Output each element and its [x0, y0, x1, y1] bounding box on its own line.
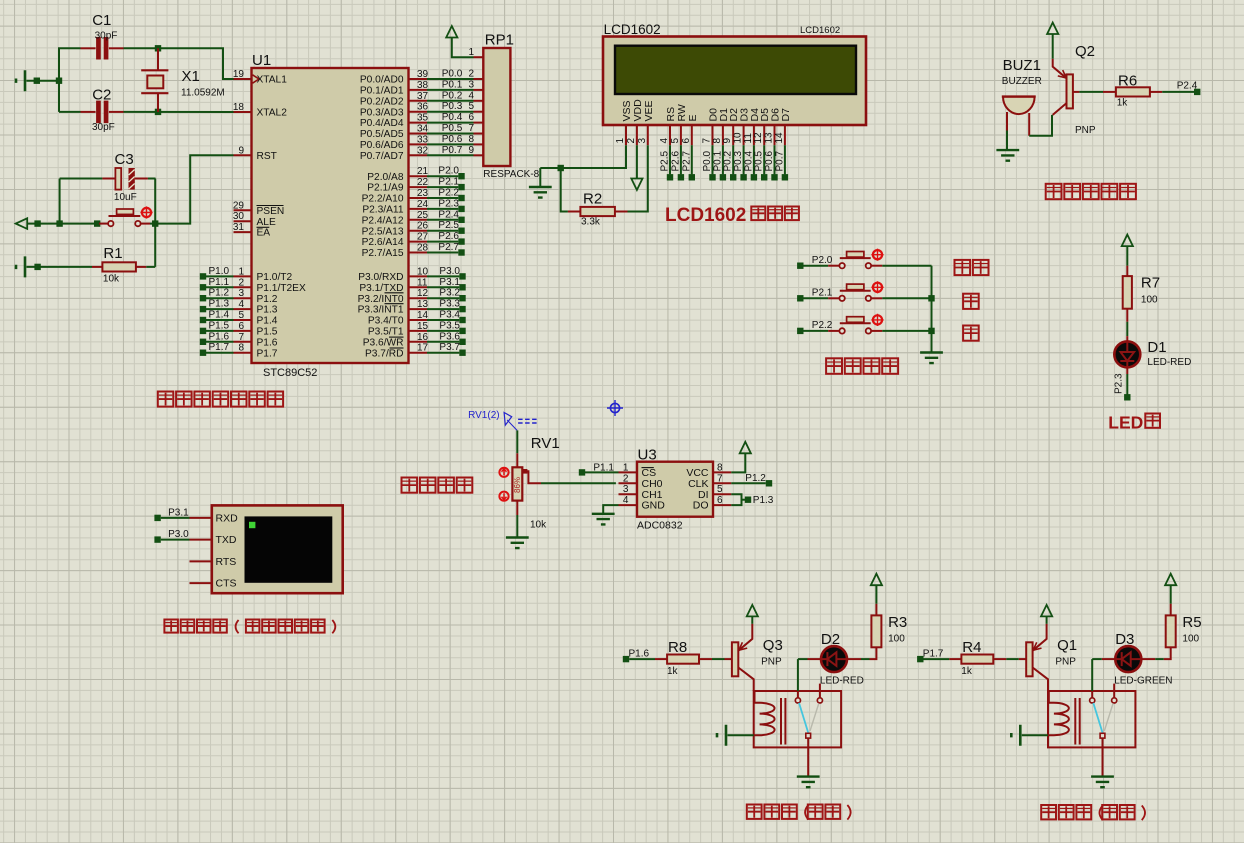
svg-text:1k: 1k — [1117, 98, 1129, 109]
svg-text:VEE: VEE — [643, 100, 655, 121]
svg-text:P0.4: P0.4 — [442, 112, 463, 123]
svg-text:ALE: ALE — [257, 217, 276, 228]
svg-text:26: 26 — [417, 221, 429, 232]
svg-text:P2.1/A9: P2.1/A9 — [367, 183, 404, 194]
svg-text:P2.6/A14: P2.6/A14 — [362, 237, 404, 248]
svg-text:P2.6: P2.6 — [670, 150, 681, 171]
svg-text:P2.7: P2.7 — [681, 150, 692, 171]
svg-text:P1.2: P1.2 — [209, 288, 230, 299]
svg-text:1: 1 — [623, 462, 629, 473]
svg-text:P1.3: P1.3 — [257, 305, 278, 316]
svg-text:P3.1: P3.1 — [168, 507, 189, 518]
svg-text:P2.3: P2.3 — [1114, 373, 1125, 394]
svg-text:11: 11 — [417, 277, 428, 288]
svg-text:3.3k: 3.3k — [581, 217, 601, 228]
svg-text:12: 12 — [417, 288, 429, 299]
svg-text:P2.0: P2.0 — [438, 166, 459, 177]
svg-text:P3.7/RD: P3.7/RD — [365, 348, 404, 359]
svg-text:6: 6 — [238, 321, 244, 332]
svg-text:10k: 10k — [103, 274, 120, 285]
svg-text:P2.6: P2.6 — [438, 231, 459, 242]
svg-text:4: 4 — [238, 299, 244, 310]
svg-text:86%: 86% — [513, 477, 522, 493]
svg-text:11.0592M: 11.0592M — [181, 88, 225, 99]
svg-text:6: 6 — [469, 112, 475, 123]
svg-text:P2.7: P2.7 — [438, 242, 459, 253]
svg-text:14: 14 — [417, 310, 429, 321]
svg-text:18: 18 — [233, 102, 245, 113]
svg-text:LCD1602: LCD1602 — [800, 25, 840, 36]
svg-text:14: 14 — [774, 132, 785, 144]
svg-text:1: 1 — [615, 138, 626, 144]
svg-text:P1.6: P1.6 — [629, 649, 650, 660]
svg-text:10uF: 10uF — [114, 192, 137, 203]
svg-text:X1: X1 — [182, 68, 200, 85]
svg-text:P2.0: P2.0 — [812, 255, 833, 266]
svg-text:8: 8 — [717, 462, 723, 473]
svg-text:D7: D7 — [780, 108, 792, 122]
svg-text:CTS: CTS — [216, 578, 237, 590]
svg-text:5: 5 — [670, 138, 681, 144]
svg-text:P3.6: P3.6 — [439, 331, 460, 342]
svg-text:7: 7 — [469, 123, 475, 134]
svg-text:3: 3 — [238, 288, 244, 299]
svg-text:P3.1: P3.1 — [439, 277, 460, 288]
svg-text:P2.1: P2.1 — [812, 288, 833, 299]
svg-text:17: 17 — [417, 343, 429, 354]
svg-text:PNP: PNP — [1075, 125, 1096, 136]
svg-text:Q3: Q3 — [763, 637, 783, 654]
svg-text:LED-GREEN: LED-GREEN — [1114, 676, 1172, 687]
svg-text:P1.2: P1.2 — [257, 294, 278, 305]
svg-text:P0.0/AD0: P0.0/AD0 — [360, 75, 404, 86]
svg-text:LED: LED — [1108, 413, 1143, 433]
svg-text:E: E — [687, 114, 699, 121]
svg-text:BUZ1: BUZ1 — [1003, 57, 1041, 74]
svg-text:3: 3 — [623, 484, 629, 495]
svg-text:P3.5/T1: P3.5/T1 — [368, 327, 404, 338]
svg-text:2: 2 — [626, 138, 637, 144]
svg-text:30: 30 — [233, 211, 245, 222]
svg-text:BUZZER: BUZZER — [1002, 76, 1042, 87]
svg-text:EA: EA — [257, 228, 271, 239]
svg-text:22: 22 — [417, 177, 429, 188]
svg-text:RTS: RTS — [216, 556, 237, 568]
svg-text:R1: R1 — [103, 245, 122, 262]
svg-text:DO: DO — [693, 500, 709, 512]
svg-text:5: 5 — [717, 484, 723, 495]
svg-text:P2.3/A11: P2.3/A11 — [362, 205, 403, 216]
svg-text:P2.0/A8: P2.0/A8 — [367, 172, 404, 183]
svg-text:P1.6: P1.6 — [209, 331, 230, 342]
svg-text:P1.2: P1.2 — [745, 473, 766, 484]
svg-text:28: 28 — [417, 243, 429, 254]
svg-text:U1: U1 — [252, 52, 271, 69]
svg-text:TXD: TXD — [216, 534, 237, 546]
svg-text:P2.4: P2.4 — [1177, 81, 1198, 92]
svg-text:8: 8 — [238, 343, 244, 354]
svg-text:RV1(2): RV1(2) — [468, 410, 500, 421]
svg-text:P0.7: P0.7 — [442, 145, 463, 156]
svg-text:R2: R2 — [583, 191, 602, 208]
svg-text:P1.4: P1.4 — [257, 316, 278, 327]
svg-text:P2.3: P2.3 — [438, 198, 459, 209]
svg-text:RST: RST — [257, 151, 277, 162]
svg-text:16: 16 — [417, 332, 429, 343]
svg-text:P3.3/INT1: P3.3/INT1 — [358, 305, 404, 316]
svg-text:P2.5/A13: P2.5/A13 — [362, 226, 404, 237]
svg-text:35: 35 — [417, 113, 429, 124]
svg-text:LCD1602: LCD1602 — [604, 22, 661, 37]
svg-text:P3.2/INT0: P3.2/INT0 — [358, 294, 404, 305]
svg-text:24: 24 — [417, 199, 429, 210]
svg-text:P0.6: P0.6 — [764, 150, 775, 171]
svg-text:P2.5: P2.5 — [660, 150, 671, 171]
svg-text:D2: D2 — [821, 631, 840, 648]
svg-text:3: 3 — [469, 79, 475, 90]
svg-text:13: 13 — [764, 132, 775, 144]
svg-text:4: 4 — [659, 138, 670, 144]
svg-text:D1: D1 — [1147, 339, 1166, 356]
svg-text:6: 6 — [717, 495, 723, 506]
svg-text:9: 9 — [469, 145, 475, 156]
svg-text:P2.5: P2.5 — [438, 220, 459, 231]
svg-text:P1.4: P1.4 — [209, 310, 230, 321]
svg-text:34: 34 — [417, 124, 429, 135]
svg-text:P0.0: P0.0 — [442, 69, 463, 80]
svg-text:P0.1/AD1: P0.1/AD1 — [360, 86, 404, 97]
svg-text:LED-RED: LED-RED — [820, 676, 864, 687]
svg-text:P3.0: P3.0 — [168, 529, 189, 540]
svg-text:P0.5: P0.5 — [442, 123, 463, 134]
svg-text:P0.0: P0.0 — [702, 150, 713, 171]
svg-text:P0.4/AD4: P0.4/AD4 — [360, 118, 404, 129]
svg-text:7: 7 — [702, 138, 713, 144]
svg-text:P1.5: P1.5 — [209, 320, 230, 331]
svg-text:P3.6/WR: P3.6/WR — [363, 337, 404, 348]
svg-text:P1.1: P1.1 — [209, 277, 230, 288]
svg-text:19: 19 — [233, 69, 245, 80]
svg-text:9: 9 — [722, 138, 733, 144]
svg-text:STC89C52: STC89C52 — [263, 367, 317, 379]
svg-text:PSEN: PSEN — [257, 206, 285, 217]
svg-text:15: 15 — [417, 321, 429, 332]
svg-text:9: 9 — [238, 145, 244, 156]
svg-text:P1.7: P1.7 — [257, 348, 278, 359]
svg-text:7: 7 — [238, 332, 244, 343]
svg-text:P3.4: P3.4 — [439, 310, 460, 321]
svg-text:P0.2: P0.2 — [723, 150, 734, 171]
svg-text:7: 7 — [717, 473, 723, 484]
svg-text:P1.1/T2EX: P1.1/T2EX — [257, 283, 306, 294]
svg-text:2: 2 — [238, 277, 244, 288]
svg-text:100: 100 — [1141, 295, 1158, 306]
svg-text:P2.4: P2.4 — [438, 209, 459, 220]
svg-text:P0.3/AD3: P0.3/AD3 — [360, 107, 404, 118]
svg-text:30pF: 30pF — [92, 122, 115, 133]
svg-text:P1.3: P1.3 — [209, 299, 230, 310]
svg-text:Q1: Q1 — [1057, 637, 1077, 654]
svg-text:P3.4/T0: P3.4/T0 — [368, 316, 404, 327]
svg-text:P2.1: P2.1 — [438, 177, 459, 188]
svg-text:10k: 10k — [530, 520, 547, 531]
svg-text:P0.7: P0.7 — [774, 150, 785, 171]
svg-text:P0.6/AD6: P0.6/AD6 — [360, 140, 404, 151]
svg-text:PNP: PNP — [1055, 657, 1076, 668]
svg-text:31: 31 — [233, 222, 245, 233]
svg-text:32: 32 — [417, 145, 429, 156]
svg-text:D3: D3 — [1115, 631, 1134, 648]
svg-text:8: 8 — [469, 134, 475, 145]
svg-text:RESPACK-8: RESPACK-8 — [483, 169, 539, 180]
svg-text:XTAL1: XTAL1 — [257, 75, 288, 86]
svg-text:GND: GND — [642, 500, 666, 512]
svg-text:1k: 1k — [667, 666, 679, 677]
svg-text:P2.2/A10: P2.2/A10 — [362, 194, 404, 205]
svg-text:P1.5: P1.5 — [257, 327, 278, 338]
svg-text:5: 5 — [469, 101, 475, 112]
svg-text:33: 33 — [417, 134, 429, 145]
svg-text:P0.3: P0.3 — [442, 101, 463, 112]
svg-text:P1.7: P1.7 — [923, 649, 944, 660]
svg-text:P2.4/A12: P2.4/A12 — [362, 215, 404, 226]
svg-text:C2: C2 — [92, 87, 111, 104]
svg-text:P0.7/AD7: P0.7/AD7 — [360, 151, 404, 162]
svg-text:1: 1 — [469, 47, 475, 58]
svg-text:25: 25 — [417, 210, 429, 221]
svg-text:R8: R8 — [668, 639, 687, 656]
svg-text:30pF: 30pF — [95, 31, 118, 42]
svg-text:P1.0: P1.0 — [209, 266, 230, 277]
svg-text:27: 27 — [417, 232, 429, 243]
svg-text:XTAL2: XTAL2 — [257, 108, 288, 119]
svg-text:P3.3: P3.3 — [439, 299, 460, 310]
svg-text:4: 4 — [469, 90, 475, 101]
svg-text:23: 23 — [417, 188, 429, 199]
svg-text:R4: R4 — [962, 639, 981, 656]
svg-text:P2.7/A15: P2.7/A15 — [362, 248, 404, 259]
svg-text:38: 38 — [417, 80, 429, 91]
svg-text:ADC0832: ADC0832 — [637, 520, 683, 532]
svg-text:100: 100 — [1182, 634, 1199, 645]
svg-text:5: 5 — [238, 310, 244, 321]
svg-text:P0.6: P0.6 — [442, 134, 463, 145]
svg-text:RV1: RV1 — [531, 435, 560, 452]
svg-text:P1.6: P1.6 — [257, 337, 278, 348]
svg-text:P2.2: P2.2 — [438, 188, 459, 199]
svg-text:37: 37 — [417, 91, 429, 102]
svg-text:LCD1602: LCD1602 — [665, 205, 746, 226]
svg-text:R7: R7 — [1141, 275, 1160, 292]
svg-text:2: 2 — [623, 473, 629, 484]
svg-text:6: 6 — [681, 138, 692, 144]
svg-text:C3: C3 — [115, 151, 134, 168]
svg-text:100: 100 — [888, 634, 905, 645]
svg-text:RXD: RXD — [216, 513, 239, 525]
svg-text:RP1: RP1 — [485, 32, 514, 49]
svg-text:R5: R5 — [1182, 614, 1201, 631]
svg-text:P1.3: P1.3 — [753, 495, 774, 506]
svg-text:R3: R3 — [888, 614, 907, 631]
svg-text:U3: U3 — [638, 447, 657, 464]
svg-text:P0.1: P0.1 — [442, 79, 463, 90]
svg-text:4: 4 — [623, 495, 629, 506]
svg-text:P3.0: P3.0 — [439, 266, 460, 277]
svg-text:39: 39 — [417, 69, 429, 80]
svg-text:3: 3 — [637, 138, 648, 144]
svg-text:13: 13 — [417, 299, 429, 310]
svg-text:1k: 1k — [961, 666, 973, 677]
svg-text:P3.7: P3.7 — [439, 342, 460, 353]
svg-text:P3.0/RXD: P3.0/RXD — [358, 272, 403, 283]
svg-text:LED-RED: LED-RED — [1147, 357, 1191, 368]
svg-text:2: 2 — [469, 69, 475, 80]
svg-text:P3.5: P3.5 — [439, 320, 460, 331]
svg-text:P2.2: P2.2 — [812, 320, 833, 331]
svg-text:PNP: PNP — [761, 657, 782, 668]
svg-text:C1: C1 — [92, 12, 111, 29]
svg-text:P0.5/AD5: P0.5/AD5 — [360, 129, 404, 140]
svg-text:Q2: Q2 — [1075, 43, 1095, 60]
svg-text:29: 29 — [233, 200, 245, 211]
svg-text:10: 10 — [417, 266, 429, 277]
svg-text:21: 21 — [417, 166, 429, 177]
svg-text:36: 36 — [417, 102, 429, 113]
svg-text:P0.2/AD2: P0.2/AD2 — [360, 96, 404, 107]
svg-text:1: 1 — [238, 266, 244, 277]
svg-text:R6: R6 — [1118, 73, 1137, 90]
svg-text:P1.0/T2: P1.0/T2 — [257, 272, 293, 283]
svg-text:P0.2: P0.2 — [442, 90, 463, 101]
svg-text:P3.2: P3.2 — [439, 288, 460, 299]
svg-text:P1.7: P1.7 — [209, 342, 230, 353]
